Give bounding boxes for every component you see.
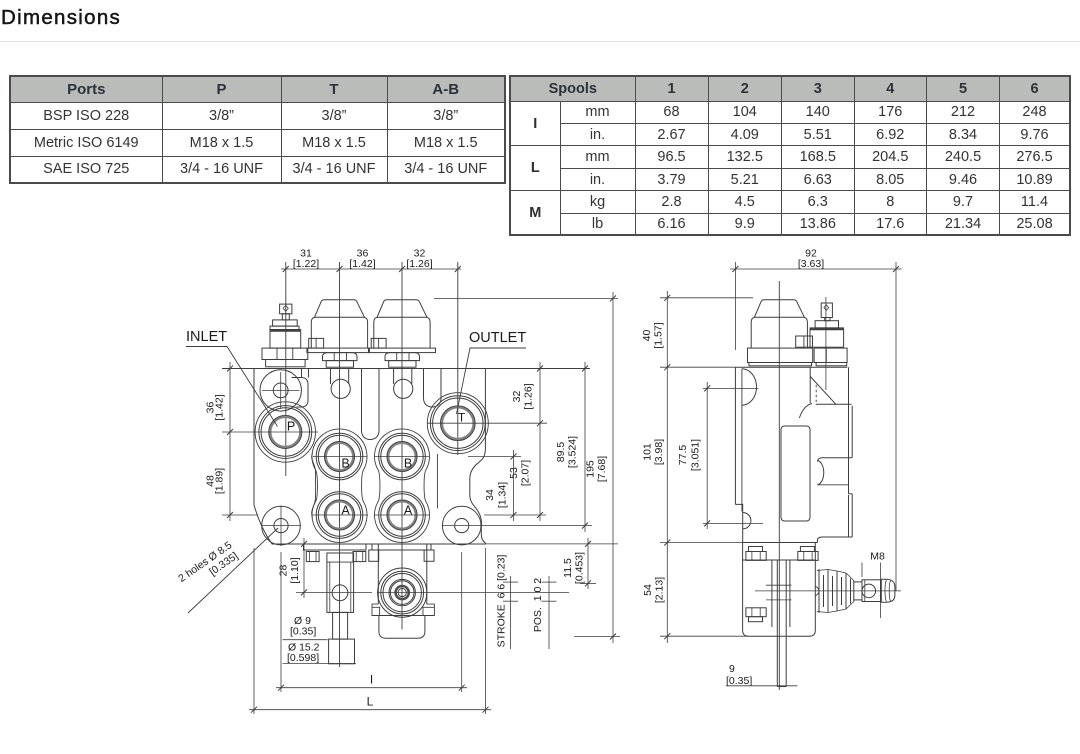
- section divider left: [312, 454, 316, 518]
- svg-text:77.5: 77.5: [677, 445, 689, 466]
- port A centerline: [222, 514, 258, 516]
- dim 28 line: [303, 538, 305, 598]
- dim line 195: [612, 292, 614, 643]
- port P ring: [261, 408, 309, 456]
- svg-text:INLET: INLET: [186, 329, 227, 345]
- cap2 hex nut: [385, 353, 420, 361]
- detent rings: [378, 568, 427, 617]
- side relief pin: [821, 303, 832, 318]
- 2 holes leader: [188, 528, 278, 613]
- mounting hole top-left cross: [262, 389, 300, 391]
- svg-text:[3.63]: [3.63]: [798, 258, 824, 270]
- port B1 ring: [318, 435, 360, 477]
- port A2 outer: [379, 492, 426, 539]
- mounting hole top-left counterbore: [260, 370, 301, 411]
- side body left edge: [734, 367, 736, 504]
- boss2 face: [851, 494, 853, 537]
- inlet section lines: [301, 369, 303, 378]
- port B1 thread: [326, 443, 354, 471]
- bracket body: [743, 543, 816, 637]
- pos dim line: [548, 576, 550, 649]
- mounting hole bottom-left: [262, 506, 301, 545]
- chamfer dashed: [815, 385, 817, 402]
- svg-text:28: 28: [278, 565, 290, 577]
- svg-text:[3.98]: [3.98]: [653, 439, 665, 465]
- svg-text:L: L: [367, 695, 374, 709]
- svg-text:[3.524]: [3.524]: [567, 436, 579, 468]
- side cap centerline: [778, 281, 780, 690]
- chamfer foot arc: [799, 404, 812, 419]
- svg-text:53: 53: [508, 467, 520, 479]
- cap1 neck: [326, 361, 353, 368]
- handle hole: [862, 584, 876, 598]
- detent tube: [377, 544, 379, 604]
- cap1 left nut: [309, 338, 324, 348]
- relief centerline: [285, 262, 287, 476]
- boss1 face: [848, 367, 850, 458]
- spool2 bottom plate: [372, 544, 431, 550]
- relief step1: [273, 320, 298, 326]
- port A1 ring: [318, 494, 360, 536]
- spool slot side: [781, 426, 810, 521]
- side relief stem: [825, 318, 830, 321]
- L dim line: [249, 709, 491, 711]
- port P outer: [259, 406, 312, 459]
- side inner line: [741, 369, 743, 512]
- spool2 bore circle: [394, 379, 413, 398]
- side relief centerline: [825, 297, 827, 390]
- svg-text:54: 54: [642, 584, 654, 596]
- bellows: [819, 569, 854, 613]
- left dim line: [229, 362, 231, 521]
- face outline B2A2: [374, 429, 429, 543]
- svg-text:[1.26]: [1.26]: [523, 383, 535, 409]
- recess face: [848, 458, 850, 494]
- spool1 bottom plate: [304, 544, 367, 550]
- chamfer corner line: [810, 376, 836, 404]
- port B2 ring: [381, 435, 423, 477]
- spool1 bolt right: [353, 552, 366, 562]
- spool1 centerline: [339, 262, 341, 667]
- mounting hole top-left: [273, 383, 288, 398]
- handle shaft: [854, 581, 862, 583]
- detent centerline: [377, 591, 569, 593]
- svg-text:T: T: [458, 411, 466, 425]
- port B1 outer: [316, 433, 363, 480]
- rod bottom: [777, 686, 786, 688]
- clevis hole: [332, 585, 348, 601]
- dim 195 bottom tick: [574, 636, 620, 638]
- svg-text:9: 9: [729, 663, 735, 675]
- dim line 11.5: [587, 538, 589, 589]
- handle thread: [862, 580, 881, 602]
- bracket bolt lower: [746, 608, 766, 617]
- svg-text:[1.26]: [1.26]: [406, 258, 432, 270]
- svg-text:P: P: [287, 420, 295, 434]
- port B centerline b: [375, 456, 429, 458]
- relief base: [266, 360, 306, 367]
- INLET leader: [186, 347, 278, 427]
- svg-text:40: 40: [641, 330, 653, 342]
- tick cap top: [660, 297, 753, 299]
- side cap lip: [749, 363, 812, 366]
- dimension top line: [281, 268, 461, 270]
- side relief hex: [810, 328, 844, 347]
- side body top edge: [735, 366, 847, 368]
- mounting hole bottom-right: [442, 506, 481, 545]
- relief flange: [262, 348, 308, 359]
- dim 77.5 line: [706, 382, 708, 529]
- svg-text:A: A: [404, 504, 413, 518]
- svg-text:[0.35]: [0.35]: [290, 626, 316, 638]
- rod stroke marks: [766, 584, 792, 586]
- port A1 bore: [324, 500, 354, 530]
- I dim extensions: [280, 552, 282, 692]
- relief pin hole: [283, 305, 288, 311]
- tie-rod slot right: [424, 369, 442, 408]
- I dim line: [276, 687, 467, 689]
- bracket shelf: [743, 559, 816, 561]
- spool2 bolt right: [424, 550, 434, 561]
- handle ball: [881, 579, 895, 602]
- svg-text:[1.57]: [1.57]: [653, 322, 665, 348]
- svg-text:[1.34]: [1.34]: [497, 482, 509, 508]
- svg-text:OUTLET: OUTLET: [469, 330, 526, 346]
- tick body bottom: [660, 542, 743, 544]
- svg-text:A: A: [341, 504, 350, 518]
- side cap dome: [754, 300, 804, 318]
- clevis top line: [327, 561, 354, 563]
- top hole centerline: [703, 387, 759, 389]
- cap1 bell: [311, 317, 367, 348]
- tie-rod slot mid: [362, 369, 380, 440]
- relief stem: [282, 314, 289, 320]
- dimension top ticks: [283, 266, 461, 272]
- svg-text:[0.35]: [0.35]: [726, 675, 752, 687]
- port T outer: [430, 396, 485, 451]
- bracket slot: [771, 560, 773, 627]
- tick bracket bottom: [660, 635, 748, 637]
- 11.5 bottom tick: [580, 582, 596, 584]
- L dim extensions: [253, 548, 255, 714]
- cap1 dome: [315, 300, 365, 318]
- port P centerline: [222, 431, 318, 433]
- svg-text:[2.07]: [2.07]: [520, 460, 532, 486]
- port A1 outer: [316, 492, 363, 539]
- outlet centerline: [457, 262, 459, 455]
- mounting hole bottom-left cross: [261, 525, 301, 527]
- body outline: [254, 369, 485, 545]
- OUTLET leader: [457, 348, 527, 414]
- svg-text:[1.10]: [1.10]: [289, 557, 301, 583]
- mounting hole bottom-right cross: [442, 525, 592, 527]
- svg-text:M8: M8: [870, 551, 885, 563]
- port B2 bore: [387, 441, 417, 471]
- side relief pin hole: [824, 305, 829, 311]
- svg-text:89.5: 89.5: [555, 442, 567, 463]
- cap2 bell: [374, 317, 430, 348]
- spool2 bore lines: [393, 369, 395, 385]
- svg-text:[1.89]: [1.89]: [214, 468, 226, 494]
- spool1 bolt left: [306, 552, 319, 562]
- port T face: [427, 393, 488, 454]
- svg-text:[0.598]: [0.598]: [287, 652, 319, 664]
- relief pin: [280, 304, 292, 314]
- svg-text:[1.42]: [1.42]: [214, 394, 226, 420]
- svg-text:34: 34: [484, 489, 496, 501]
- port A1 thread: [326, 501, 354, 529]
- tick body top: [660, 366, 735, 368]
- cap2 dome: [377, 300, 427, 318]
- svg-text:I: I: [370, 673, 373, 687]
- svg-text:B: B: [404, 457, 412, 471]
- side relief lip: [816, 363, 847, 366]
- svg-text:B: B: [341, 457, 349, 471]
- cap2 left nut: [371, 338, 386, 348]
- port A2 thread: [388, 501, 416, 529]
- port P face: [255, 402, 315, 462]
- boss1 top: [816, 403, 852, 405]
- cap2 plate: [369, 348, 435, 353]
- port A2 ring: [381, 494, 423, 536]
- handle centerline: [755, 590, 901, 592]
- bracket bolt right: [800, 547, 814, 552]
- svg-text:STROKE 6 6 [0.23]: STROKE 6 6 [0.23]: [496, 555, 508, 648]
- dim 34 tick: [468, 456, 521, 458]
- tongue arc: [817, 461, 823, 485]
- dim 28 tick: [296, 591, 372, 593]
- wire top edge extension left: [222, 368, 254, 370]
- port P thread: [270, 417, 300, 447]
- dim line 89.5: [584, 362, 586, 532]
- port P bore: [269, 415, 302, 448]
- cap1 plate: [307, 348, 369, 353]
- spool1 bore lines: [330, 369, 332, 385]
- svg-text:195: 195: [585, 460, 597, 478]
- bottom hole centerline: [703, 522, 763, 524]
- detent tab left: [372, 604, 380, 615]
- side relief flange: [814, 348, 847, 362]
- relief step2: [270, 326, 299, 330]
- cap1 hex nut: [323, 353, 358, 361]
- keyhole notch: [292, 378, 309, 408]
- svg-text:[2.13]: [2.13]: [654, 577, 666, 603]
- port B2 thread: [388, 443, 416, 471]
- side relief collar: [815, 321, 838, 328]
- dim 92 extensions: [734, 262, 736, 350]
- spool1 bore circle: [331, 379, 350, 398]
- side body bottom edge: [743, 542, 818, 544]
- svg-text:[0.453]: [0.453]: [574, 552, 586, 584]
- bellows profile: [817, 570, 854, 613]
- body bottom extension: [486, 543, 619, 545]
- port A2 bore: [387, 500, 417, 530]
- relief hex: [270, 330, 301, 349]
- spool2 centerline: [401, 262, 403, 630]
- chamfer inner vertical: [809, 367, 811, 403]
- boss2 top: [849, 493, 853, 495]
- dim 9 leader: [726, 685, 798, 687]
- side cap plate: [748, 348, 813, 362]
- M8 extensions: [861, 563, 863, 578]
- face outline B1A1: [312, 429, 367, 543]
- side cap bell: [751, 317, 807, 348]
- svg-text:[3.051]: [3.051]: [690, 439, 702, 471]
- port T ring: [433, 398, 483, 448]
- svg-text:32: 32: [511, 391, 523, 403]
- top boss half-disc: [742, 369, 757, 405]
- lower boss arc: [743, 513, 751, 529]
- bracket bolt left: [749, 547, 763, 552]
- clevis rod tip: [329, 639, 355, 664]
- section divider: [436, 454, 438, 509]
- svg-text:101: 101: [642, 443, 654, 461]
- clevis inner lines: [329, 562, 331, 612]
- side tab: [796, 336, 813, 347]
- side body left jog: [735, 504, 742, 542]
- wire top edge extension right: [486, 368, 591, 370]
- dia 15.2 leader: [283, 663, 356, 665]
- svg-text:[7.68]: [7.68]: [596, 456, 608, 482]
- svg-text:[1.42]: [1.42]: [349, 258, 375, 270]
- clevis rod: [333, 612, 348, 639]
- dim 195 top tick: [434, 297, 618, 299]
- cap2 neck: [389, 361, 416, 368]
- left dim column: [666, 291, 668, 643]
- port T bore: [440, 406, 475, 441]
- port B centerline: [313, 456, 367, 458]
- svg-text:11.5: 11.5: [562, 558, 574, 578]
- dia 9 leader: [283, 639, 328, 641]
- stroke dim line: [510, 576, 512, 649]
- spool2 bolt left: [369, 550, 379, 561]
- right dim line 32-53: [539, 362, 541, 521]
- tongue bottom: [817, 484, 848, 486]
- clevis body: [327, 553, 354, 612]
- boss2 bottom: [817, 537, 852, 540]
- detent cover: [379, 616, 425, 639]
- dim line 34: [513, 450, 515, 521]
- boss2 foot: [816, 539, 818, 543]
- boss1 bottom: [817, 458, 852, 462]
- svg-text:[1.22]: [1.22]: [293, 258, 319, 270]
- port T thread: [442, 407, 474, 439]
- rod side: [776, 560, 778, 686]
- detent tab right: [423, 604, 434, 615]
- dim 92 line: [730, 268, 902, 270]
- pivot notch: [815, 587, 819, 596]
- port B2 outer: [379, 433, 426, 480]
- port B1 bore: [324, 441, 354, 471]
- port T centerline: [427, 422, 547, 424]
- svg-text:POS. 1 0 2: POS. 1 0 2: [532, 578, 544, 632]
